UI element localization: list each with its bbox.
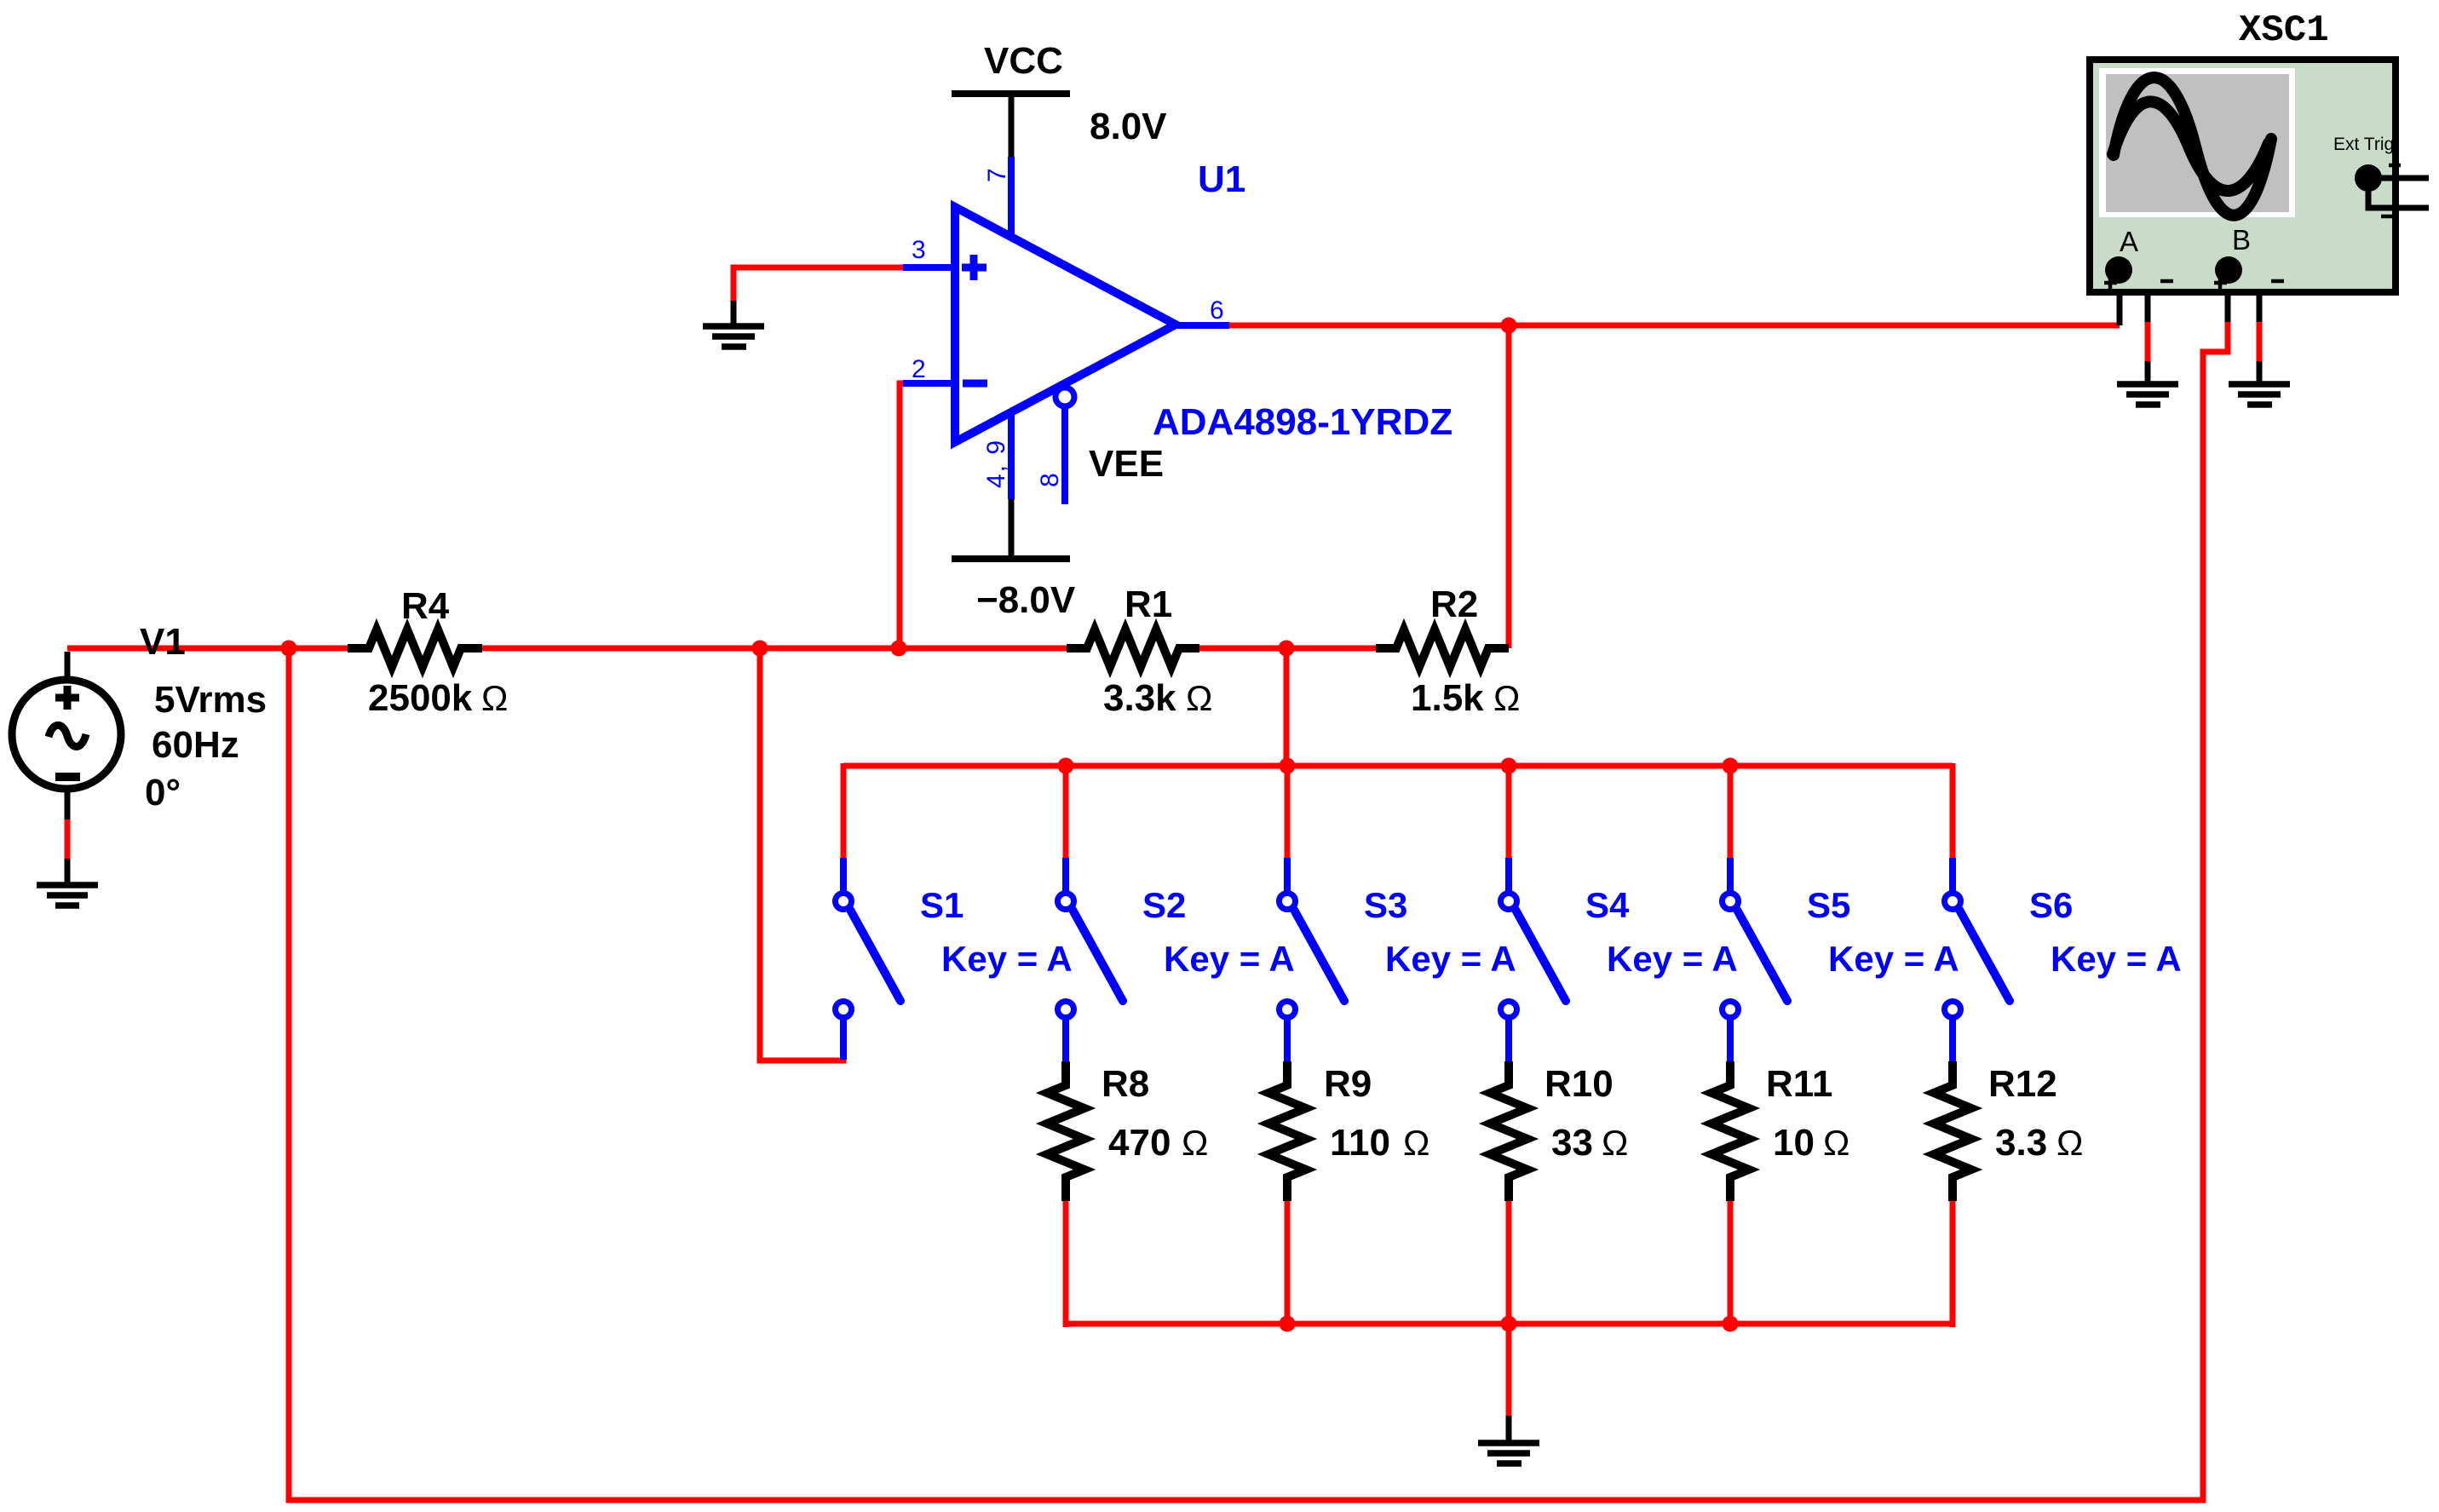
wire S2 feeder: [1063, 766, 1069, 858]
svg-text:3.3: 3.3: [1995, 1122, 2047, 1164]
scope ext trig minus mark: [2381, 215, 2393, 219]
switch S6: [1945, 858, 2010, 1061]
node bus S3: [1280, 758, 1296, 774]
wire switch bus: [843, 763, 1953, 769]
node bottom bus R11: [1723, 1316, 1739, 1332]
svg-text:R11: R11: [1766, 1063, 1832, 1105]
op-amp plus mark: [962, 264, 987, 272]
wire VCC stem: [1009, 94, 1015, 157]
wire S5 feeder: [1728, 766, 1734, 858]
scope A plus mark: [2104, 277, 2117, 289]
op-amp pin 3 lead: [903, 264, 959, 271]
wire op-amp output to scope A: [1229, 323, 2120, 329]
node bottom bus R9: [1280, 1316, 1296, 1332]
wire V1 ground stem: [65, 859, 71, 884]
wire S1 feeder: [841, 763, 847, 858]
switch S1: [836, 858, 901, 1060]
wire V1 bottom lead: [65, 790, 71, 819]
svg-text:1.5k: 1.5k: [1411, 677, 1484, 719]
svg-text:10: 10: [1773, 1122, 1815, 1164]
svg-text:5Vrms: 5Vrms: [154, 679, 267, 721]
svg-text:Ω: Ω: [1823, 1123, 1849, 1163]
wire VEE stem: [1009, 499, 1015, 559]
resistor R1: [1067, 630, 1199, 667]
op-amp pin 2 lead: [903, 380, 959, 387]
op-amp pin 8 circle and lead: [1056, 388, 1074, 406]
wire bottom resistor bus: [1066, 1321, 1953, 1327]
ground scope B: [2229, 384, 2290, 405]
svg-text:S6: S6: [2029, 885, 2073, 925]
svg-text:Ω: Ω: [1186, 678, 1212, 718]
svg-text:S3: S3: [1364, 885, 1407, 925]
svg-text:60Hz: 60Hz: [152, 724, 239, 766]
wire scope B minus lead: [2239, 273, 2259, 322]
scope terminal A: [2105, 256, 2132, 284]
op-amp minus mark: [963, 380, 987, 388]
wire left loop V1 junction down to bottom: [289, 322, 2228, 1500]
wire scope A minus ground stem: [2145, 361, 2151, 383]
resistor R10: [1490, 1061, 1527, 1201]
svg-text:Key = A: Key = A: [1607, 939, 1738, 979]
node bottom bus R10/ground: [1501, 1316, 1517, 1332]
wire ground drop from bottom bus: [1506, 1324, 1512, 1416]
wire pin2 drop: [900, 383, 905, 648]
svg-text:VCC: VCC: [984, 40, 1063, 82]
wire R2 right up to output row: [1506, 325, 1512, 648]
svg-text:−8.0V: −8.0V: [976, 579, 1076, 621]
switch S3: [1280, 858, 1345, 1061]
op-amp pin 4,9 lead: [1008, 411, 1015, 499]
wire R4 right to R1 left: [481, 646, 1068, 652]
svg-text:Ω: Ω: [1493, 678, 1520, 718]
svg-text:S1: S1: [920, 885, 964, 925]
scope A minus mark: [2160, 279, 2173, 284]
wire scope A minus segment: [2145, 322, 2151, 361]
scope screen sine wave 1: [2114, 78, 2271, 216]
wire scope A minus lead: [2129, 273, 2148, 322]
GROUNDS: [37, 326, 2290, 1463]
svg-text:Ω: Ω: [1403, 1123, 1429, 1163]
svg-text:S5: S5: [1807, 885, 1850, 925]
switch S5: [1723, 858, 1788, 1061]
scope terminal Ext Trig: [2355, 164, 2382, 192]
wire feedback drop to S1 bottom: [760, 648, 843, 1061]
node feedback junction: [752, 641, 768, 657]
wire S6 feeder: [1950, 763, 1956, 858]
resistor R4: [348, 630, 482, 667]
svg-text:Ω: Ω: [1602, 1123, 1628, 1163]
ground below bottom bus: [1478, 1443, 1539, 1463]
ground below V1: [37, 885, 98, 905]
svg-text:R8: R8: [1102, 1063, 1149, 1105]
wire R9 bottom feeder: [1285, 1201, 1291, 1324]
svg-text:33: 33: [1551, 1122, 1593, 1164]
svg-text:ADA4898-1YRDZ: ADA4898-1YRDZ: [1153, 401, 1452, 443]
svg-text:Key = A: Key = A: [1828, 939, 1959, 979]
svg-text:Ext Trig: Ext Trig: [2333, 135, 2394, 154]
svg-text:R2: R2: [1430, 584, 1478, 625]
svg-text:110: 110: [1330, 1122, 1390, 1164]
svg-text:V1: V1: [140, 621, 186, 663]
svg-text:R9: R9: [1324, 1063, 1372, 1105]
svg-text:Key = A: Key = A: [941, 939, 1073, 979]
svg-text:0°: 0°: [145, 772, 181, 813]
wire S3 feeder: [1285, 766, 1291, 858]
node bus S2: [1058, 758, 1074, 774]
svg-text:2: 2: [912, 355, 926, 383]
wire scope B plus lead: [2225, 281, 2231, 322]
resistor R2: [1376, 630, 1509, 667]
svg-text:XSC1: XSC1: [2239, 9, 2329, 52]
svg-text:8.0V: 8.0V: [1090, 106, 1167, 147]
scope B plus mark: [2214, 277, 2227, 289]
svg-text:Ω: Ω: [1182, 1123, 1208, 1163]
SWITCHES: [836, 858, 2010, 1061]
wire scope A plus lead: [2117, 281, 2123, 325]
wire V1 ground segment: [65, 819, 71, 859]
wire scope B minus segment: [2257, 322, 2263, 361]
node R1-R2 junction: [1279, 641, 1295, 657]
svg-text:S2: S2: [1142, 885, 1186, 925]
svg-text:R4: R4: [401, 585, 450, 627]
scope ext trig wiring: [2368, 178, 2429, 208]
svg-text:Ω: Ω: [481, 678, 508, 718]
scope ext trig plus mark: [2389, 159, 2401, 171]
wire V1 top lead: [65, 652, 71, 679]
op-amp output lead pin 6: [1176, 322, 1229, 329]
scope B minus mark: [2271, 279, 2284, 284]
svg-text:Key = A: Key = A: [2051, 939, 2182, 979]
VEE rail bar: [952, 555, 1070, 562]
node output junction: [1501, 318, 1517, 334]
svg-text:Key = A: Key = A: [1164, 939, 1295, 979]
ground at op-amp pin3: [703, 326, 764, 347]
node bus S4: [1501, 758, 1517, 774]
svg-text:3: 3: [912, 236, 926, 264]
svg-text:R1: R1: [1125, 584, 1172, 625]
svg-text:A: A: [2120, 226, 2138, 257]
wire R11 bottom feeder: [1728, 1201, 1734, 1324]
wire R12 bottom feeder: [1950, 1201, 1956, 1327]
svg-text:7: 7: [983, 168, 1011, 182]
switch S2: [1058, 858, 1124, 1061]
svg-text:Key = A: Key = A: [1385, 939, 1516, 979]
wire R10 bottom feeder: [1506, 1201, 1512, 1324]
svg-text:2500k: 2500k: [368, 677, 473, 719]
resistor R11: [1711, 1061, 1749, 1201]
oscilloscope XSC1: [2090, 9, 2429, 292]
ground scope A: [2117, 384, 2178, 405]
resistor R8: [1047, 1061, 1084, 1201]
op-amp U1: [903, 157, 1229, 504]
svg-text:470: 470: [1108, 1122, 1171, 1164]
wire R1R2 junction vertical: [1284, 648, 1290, 766]
wire R1 right to R2 left: [1199, 646, 1376, 652]
svg-text:R10: R10: [1545, 1063, 1614, 1105]
scope screen sine wave 2: [2113, 101, 2269, 191]
svg-text:3.3k: 3.3k: [1103, 677, 1176, 719]
resistor R9: [1268, 1061, 1306, 1201]
wire pin3 to ground: [733, 267, 905, 301]
wire R8 bottom feeder: [1063, 1201, 1069, 1327]
svg-text:VEE: VEE: [1089, 443, 1164, 485]
scope terminal B: [2215, 256, 2242, 284]
wire bottom ground stem: [1506, 1416, 1512, 1442]
svg-text:U1: U1: [1198, 158, 1245, 200]
svg-text:B: B: [2232, 224, 2251, 256]
svg-text:R12: R12: [1988, 1063, 2057, 1105]
switch S4: [1501, 858, 1567, 1061]
svg-text:Ω: Ω: [2056, 1123, 2083, 1163]
node V1/R4 junction: [281, 641, 297, 657]
wire S4 feeder: [1506, 766, 1512, 858]
svg-text:6: 6: [1210, 296, 1224, 325]
node pin2 junction: [891, 641, 907, 657]
RESISTORS: [348, 630, 1971, 1201]
svg-text:4, 9: 4, 9: [982, 439, 1010, 488]
resistor R12: [1934, 1061, 1971, 1201]
wire pin3 ground stem: [731, 301, 737, 325]
svg-text:8: 8: [1036, 473, 1064, 487]
wire main input row V1 to R4: [67, 646, 348, 652]
voltage source V1: [12, 680, 121, 789]
VCC rail bar: [952, 90, 1070, 97]
node bus S5: [1723, 758, 1739, 774]
svg-text:S4: S4: [1585, 885, 1630, 925]
op-amp pin 7 lead: [1008, 157, 1015, 239]
wire scope B minus ground stem: [2257, 361, 2263, 383]
WIRES-RED: [67, 267, 2259, 1500]
